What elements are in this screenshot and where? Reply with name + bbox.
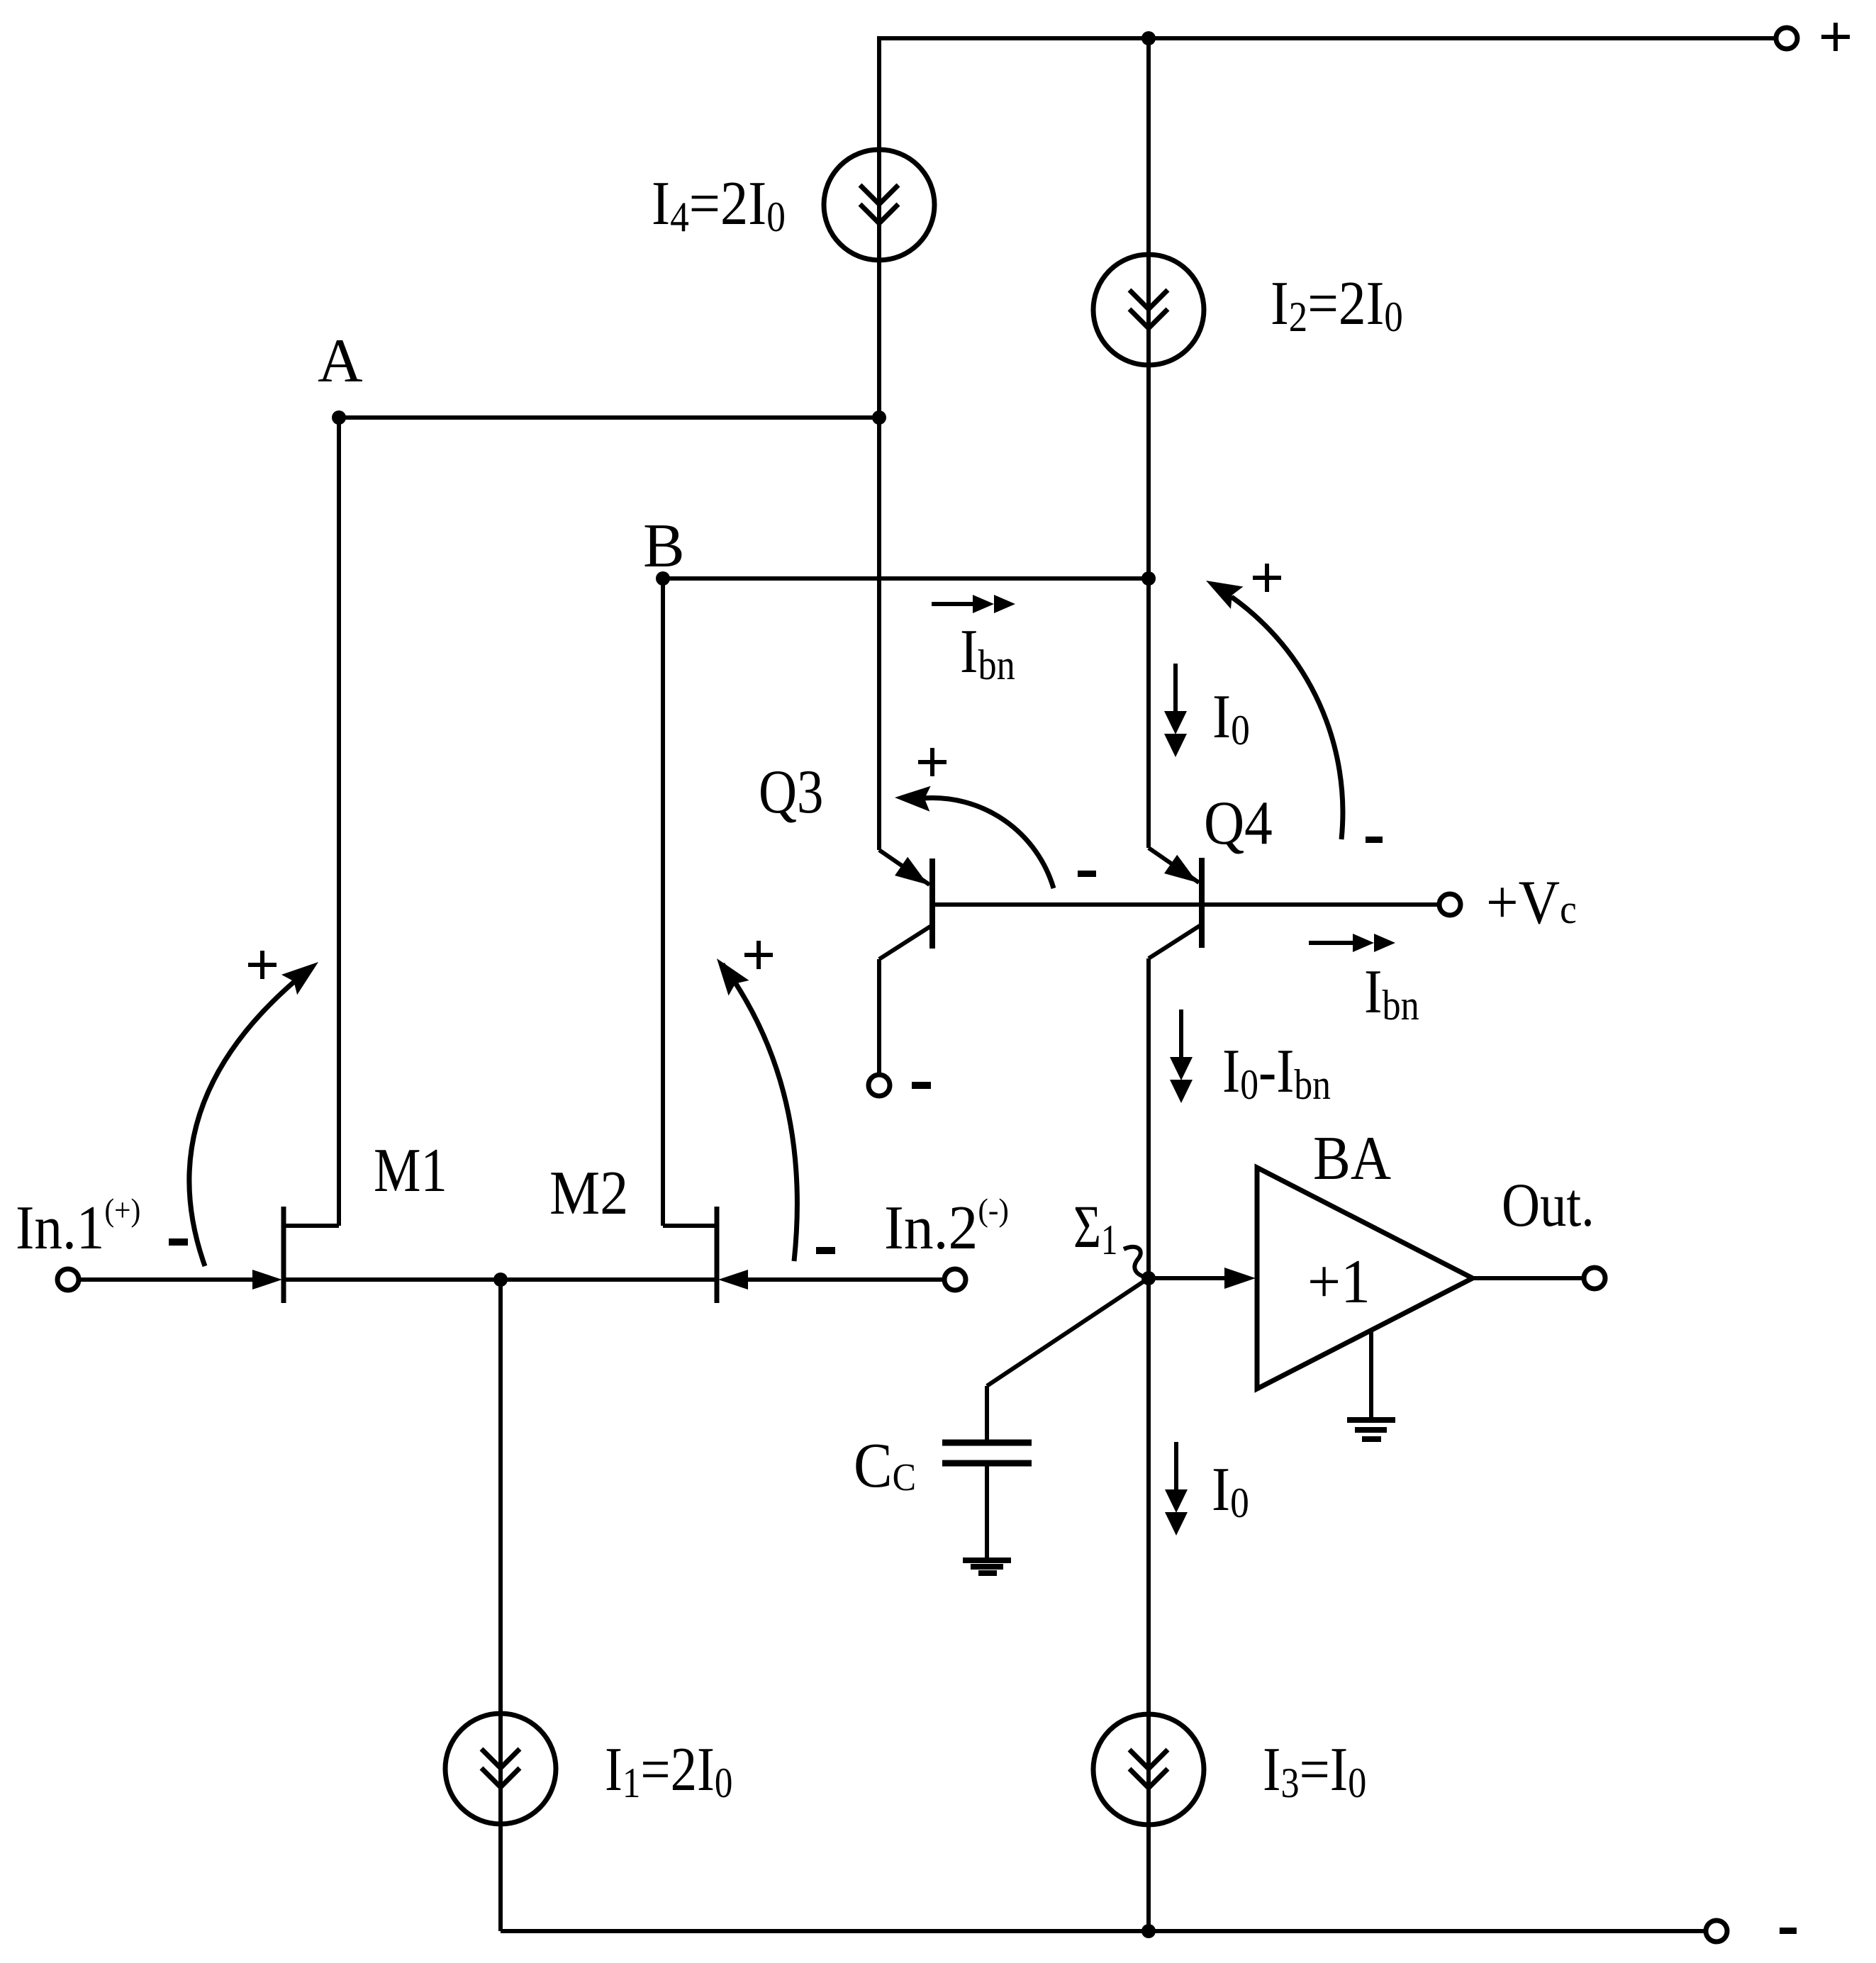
terminal In.2 [944, 1269, 966, 1290]
terminal + supply top right [1776, 28, 1797, 49]
svg-text:Ibn: Ibn [960, 617, 1015, 689]
svg-text:A: A [318, 327, 363, 396]
wire In.2 to M2 gate [738, 1277, 944, 1282]
node junction dot B wire / I2 column [1141, 571, 1156, 586]
svg-text:I2=2I0: I2=2I0 [1271, 268, 1403, 340]
ground BA [1369, 1332, 1373, 1419]
current flow arrow I0 lower [1174, 1442, 1178, 1490]
transistor M2 [715, 1207, 720, 1303]
current flow arrow Ibn top [932, 602, 974, 606]
svg-text:CC: CC [854, 1429, 916, 1500]
voltage polarity arc M2 with + [744, 953, 773, 957]
wire Q3-Q4 base [932, 902, 1202, 907]
svg-text:I0: I0 [1212, 683, 1250, 754]
svg-text:Q4: Q4 [1204, 788, 1273, 858]
wire I4 column upper [877, 36, 881, 850]
svg-text:M1: M1 [374, 1135, 447, 1204]
svg-text:I3=I0: I3=I0 [1263, 1735, 1366, 1807]
svg-text:M2: M2 [549, 1159, 628, 1228]
svg-text:Ibn: Ibn [1364, 957, 1419, 1029]
wire Q4 base to +Vc terminal [1202, 902, 1439, 907]
current flow arrow I0-Ibn [1179, 1010, 1183, 1058]
terminal - supply bottom right [1706, 1920, 1727, 1942]
current source I3 [1093, 1714, 1204, 1825]
capacitor Cc [985, 1386, 989, 1441]
node sum junction dot Sigma1 [1141, 1271, 1156, 1285]
terminal In.1 [57, 1269, 79, 1290]
ground Cc [963, 1557, 1011, 1563]
op-amp BA unity buffer [1257, 1168, 1473, 1389]
terminal Out [1584, 1268, 1605, 1289]
svg-text:+Vc: +Vc [1486, 868, 1577, 937]
svg-text:I0-Ibn: I0-Ibn [1222, 1036, 1331, 1109]
wire tail down to I1 [498, 1280, 503, 1931]
node junction dot A wire / I4 column [872, 410, 886, 425]
wire Q4 collector drop to summing node [1146, 958, 1151, 1278]
wire Cc branch diagonal [987, 1278, 1149, 1386]
voltage polarity arc Q4 with + and - [1253, 576, 1281, 580]
node junction dot top rail / I2 column [1141, 31, 1156, 45]
current source I2 [1093, 255, 1204, 365]
svg-text:Σ1: Σ1 [1073, 1192, 1117, 1263]
wire node A vertical drop to M1 drain [337, 418, 341, 1226]
node junction dot common source [493, 1273, 508, 1287]
wire top positive supply rail [879, 36, 1776, 40]
node A [332, 410, 346, 425]
node B [656, 571, 670, 586]
svg-text:B: B [643, 512, 685, 581]
wire node A horizontal [339, 415, 879, 420]
current flow arrow Ibn right [1309, 941, 1354, 945]
wire In.1 to M1 gate [79, 1277, 262, 1282]
svg-text:I0: I0 [1212, 1455, 1249, 1527]
wire node B vertical drop to M2 drain [661, 578, 665, 1226]
current source I1 [445, 1713, 556, 1824]
label minus at M1 gate [169, 1238, 188, 1246]
transistor Q4 [1149, 848, 1199, 883]
current flow arrow I0 upper [1173, 664, 1178, 712]
wire node B horizontal [663, 576, 1149, 581]
wire Q3 collector drop [877, 959, 881, 1075]
wire buffer output [1473, 1276, 1583, 1280]
wire I2 column upper [1146, 38, 1151, 848]
node junction dot bottom rail / I3 column [1141, 1924, 1156, 1938]
svg-text:I4=2I0: I4=2I0 [652, 169, 786, 241]
voltage polarity arc M1 with + [248, 963, 277, 967]
svg-text:In.1(+): In.1(+) [16, 1192, 140, 1263]
wire bottom negative supply rail [501, 1929, 1706, 1933]
svg-text:I1=2I0: I1=2I0 [605, 1734, 732, 1807]
terminal +Vc [1439, 894, 1461, 915]
svg-text:Q3: Q3 [759, 756, 823, 826]
transistor Q3 [879, 850, 929, 885]
svg-text:Out.: Out. [1502, 1170, 1595, 1239]
svg-text:BA: BA [1313, 1124, 1391, 1193]
squiggle Sigma1 pointer [1124, 1247, 1146, 1277]
wire summing node to buffer input [1149, 1276, 1230, 1280]
terminal Q3 collector [869, 1075, 890, 1096]
wire I3 column [1146, 1278, 1151, 1931]
wire common source rail M1-M2 [284, 1277, 717, 1282]
current source I4 [824, 150, 934, 260]
transistor M1 [281, 1207, 286, 1303]
svg-text:In.2(-): In.2(-) [884, 1192, 1009, 1262]
svg-text:+1: +1 [1307, 1247, 1370, 1316]
voltage polarity arc Q3 with + and - [918, 760, 947, 764]
label minus at M2 gate [816, 1247, 835, 1254]
